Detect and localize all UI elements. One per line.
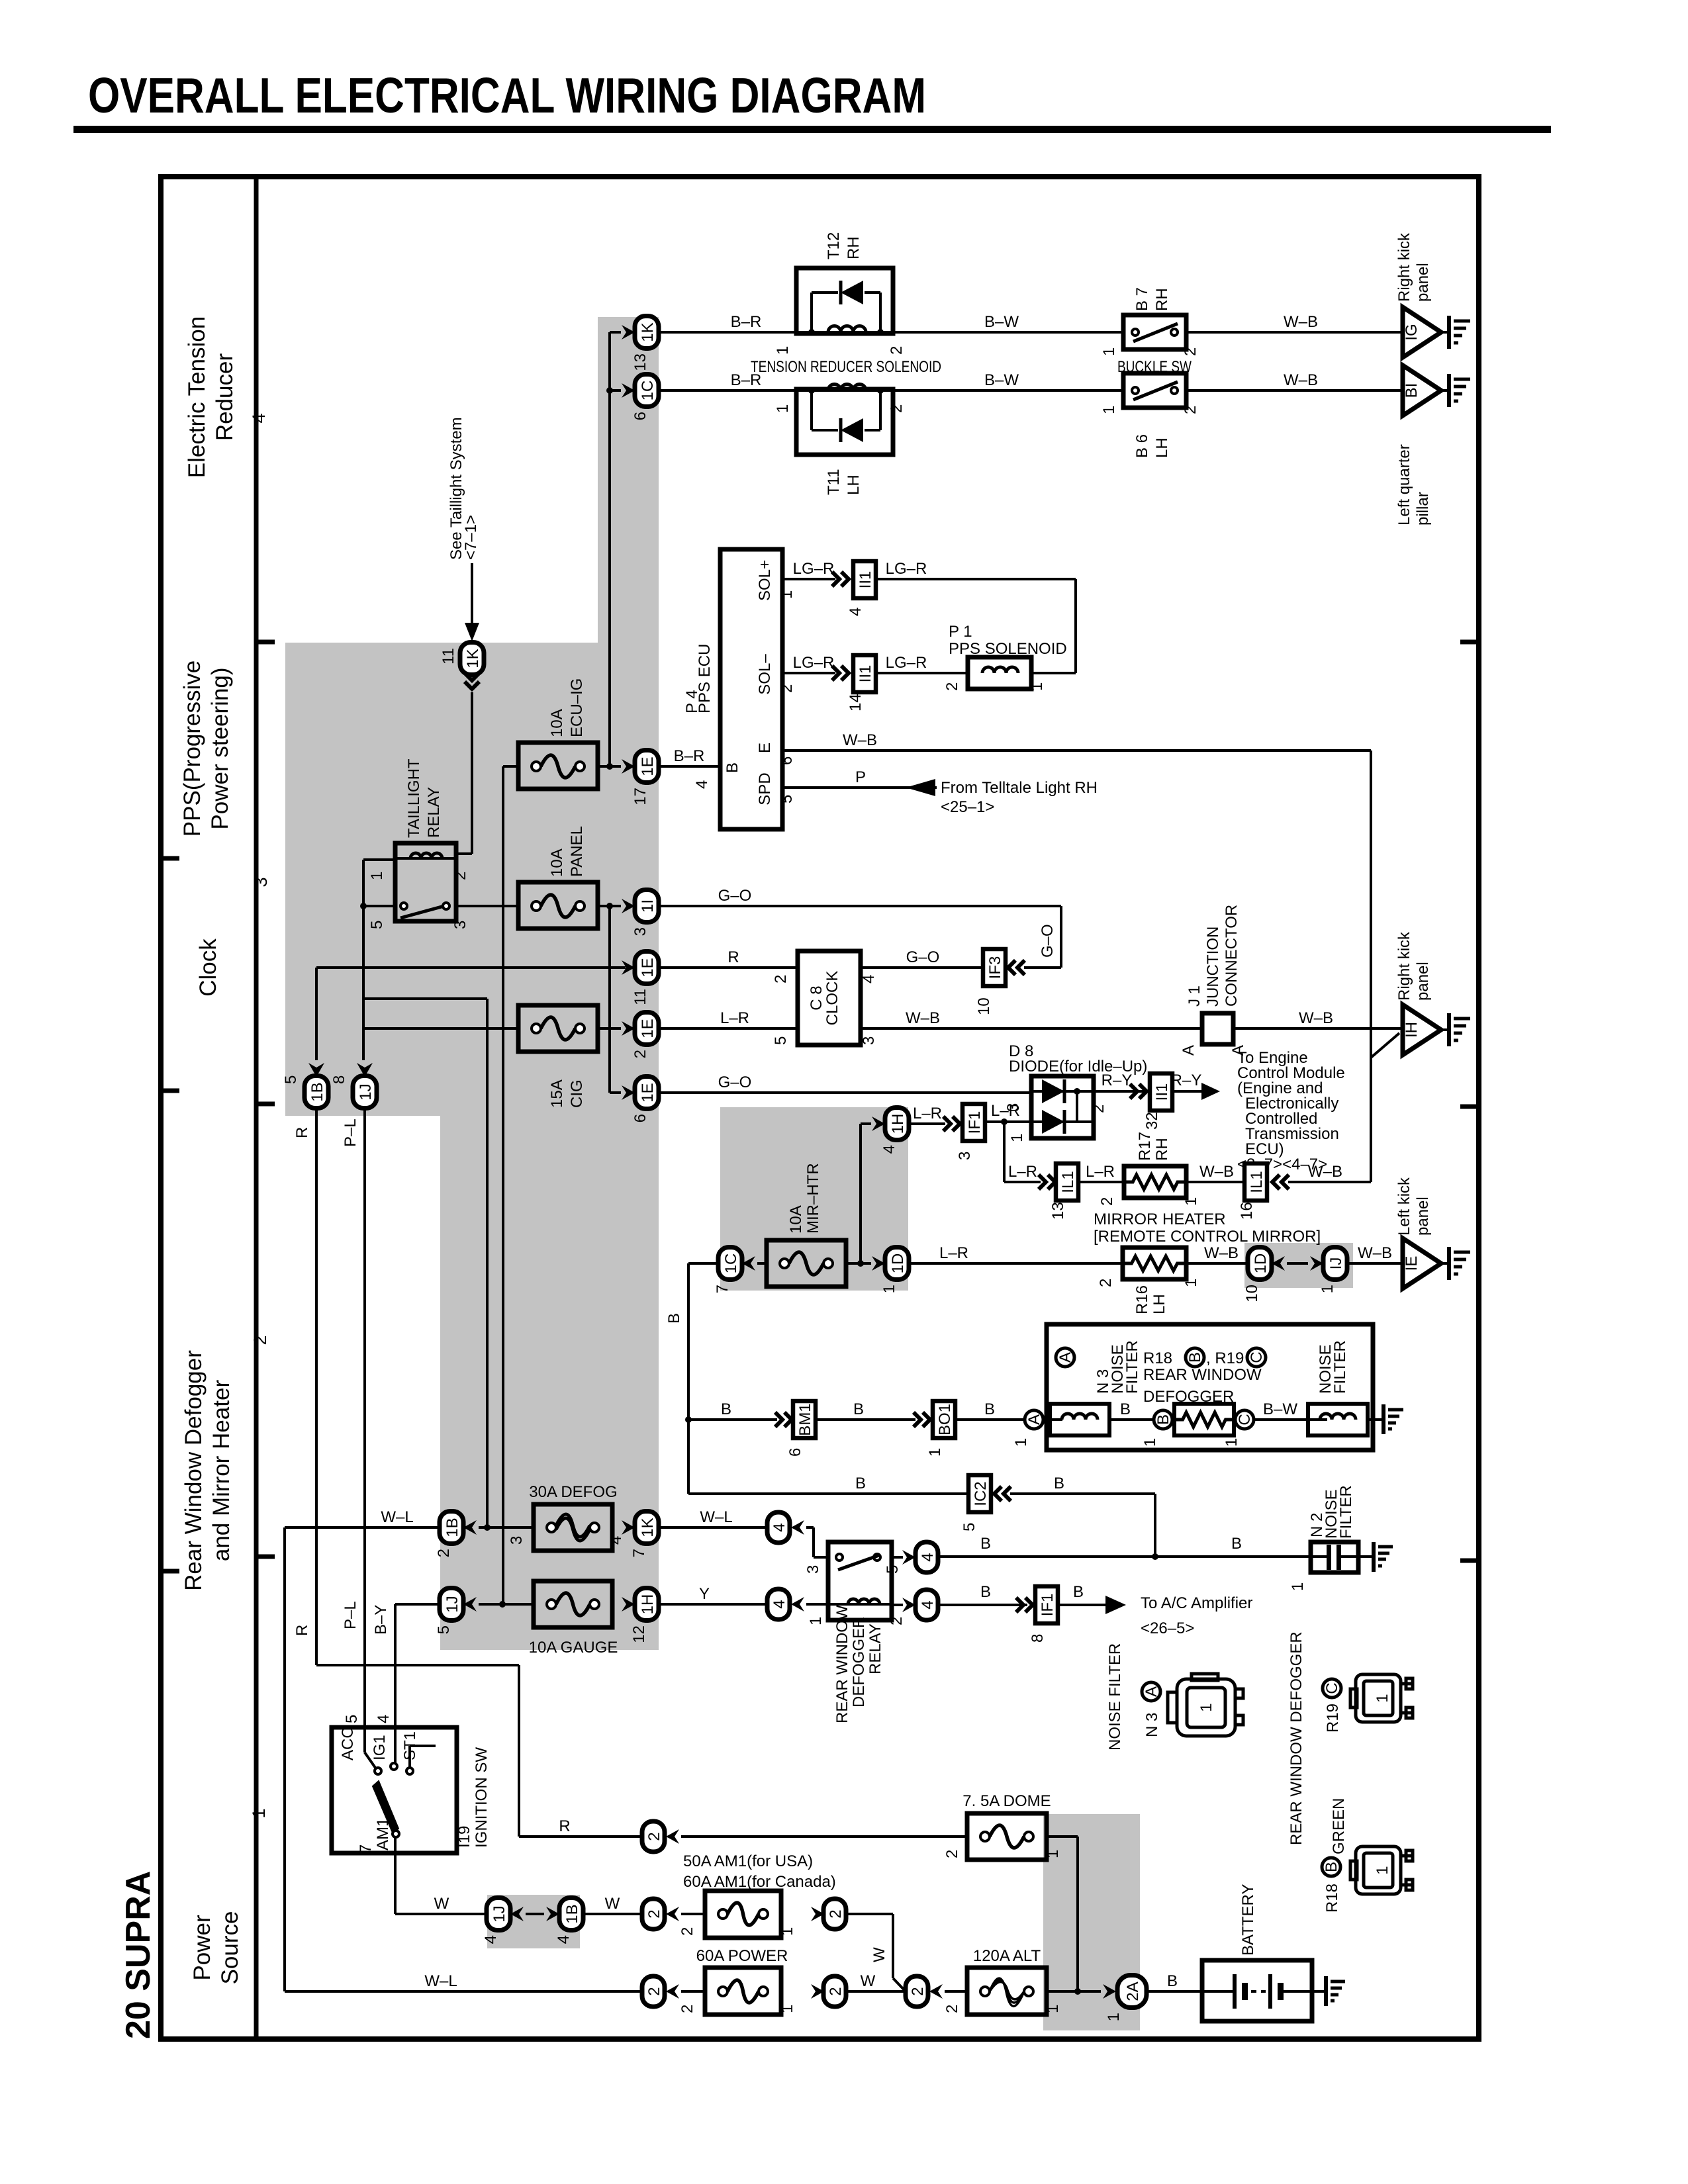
svg-text:W–B: W–B	[1308, 1163, 1342, 1181]
label REAR WINDOW DEFOGGER RELAY	[833, 1605, 884, 1723]
connector 11/1K	[440, 643, 484, 675]
svg-text:1: 1	[1223, 1438, 1241, 1447]
svg-text:B: B	[1054, 1475, 1064, 1492]
wire B to IC2	[688, 1475, 968, 1494]
terminal A circle inside box	[1056, 1348, 1074, 1367]
label B 6 LH	[1133, 434, 1171, 458]
svg-text:IF1: IF1	[1039, 1594, 1056, 1617]
svg-text:Power: Power	[189, 1915, 215, 1981]
svg-text:W: W	[605, 1895, 620, 1913]
svg-text:Y: Y	[699, 1585, 710, 1603]
diode D8 for Idle-Up	[1031, 1076, 1094, 1138]
svg-text:2: 2	[943, 2005, 961, 2013]
node N2 junction	[1152, 1553, 1158, 1560]
chevron into IC2	[994, 1486, 1011, 1501]
wire B-R row1	[659, 313, 796, 332]
svg-text:1B: 1B	[444, 1518, 461, 1537]
svg-text:15A: 15A	[548, 1079, 566, 1108]
wire stub to 1K	[610, 331, 621, 334]
label B before N2	[1231, 1535, 1242, 1553]
svg-text:W–B: W–B	[1284, 313, 1318, 331]
svg-text:4: 4	[482, 1935, 500, 1944]
fuse 30A DEFOG	[534, 1504, 612, 1551]
svg-text:I19: I19	[455, 1826, 473, 1848]
pin 3 DEFOG fuse	[508, 1536, 526, 1545]
svg-text:Right kick: Right kick	[1395, 931, 1413, 1001]
pin 3 D8	[1004, 1103, 1022, 1112]
svg-text:6: 6	[632, 412, 649, 420]
label R18 with circle B GREEN	[1322, 1798, 1348, 1913]
resistor R16 mirror heater LH	[1123, 1248, 1186, 1279]
svg-text:2: 2	[888, 1617, 906, 1625]
wire W-B clock pin3 to J1	[861, 1009, 1202, 1028]
svg-text:W: W	[870, 1947, 888, 1962]
svg-text:2: 2	[943, 682, 961, 691]
svg-text:3: 3	[451, 921, 469, 929]
svg-text:10A: 10A	[548, 848, 566, 877]
wire between pair	[1287, 1262, 1308, 1265]
pin 3 defog relay	[804, 1565, 822, 1574]
svg-text:LG–R: LG–R	[793, 560, 835, 578]
wire W to oval am1	[583, 1895, 642, 1914]
wire B-W row1	[893, 313, 1123, 332]
junction II1 pin14	[847, 655, 876, 711]
pin 1 D8	[1008, 1134, 1026, 1142]
svg-text:ACC: ACC	[339, 1727, 357, 1760]
ticks	[161, 642, 1479, 1571]
ground IG right kick panel	[1403, 307, 1470, 357]
label B-Y vertical	[372, 1605, 390, 1635]
svg-text:A: A	[1180, 1045, 1197, 1056]
junction II1 pin32	[1143, 1073, 1172, 1130]
wire W-B row1	[1186, 313, 1403, 332]
wire W-L to oval	[659, 1508, 767, 1527]
arrow into 4/1J	[510, 1907, 524, 1921]
label N 3 NOISE FILTER	[1094, 1340, 1141, 1394]
svg-text:5: 5	[343, 1715, 361, 1723]
wire P-L into ACC	[365, 1727, 375, 1768]
svg-text:T12: T12	[825, 232, 843, 259]
svg-text:W–B: W–B	[906, 1009, 940, 1027]
arrow into 2/1B	[463, 1520, 477, 1535]
pin 1 N2	[1289, 1582, 1307, 1591]
connector 5/1J	[435, 1588, 463, 1635]
connector 1/1D	[880, 1248, 909, 1294]
pin 4 clock	[860, 975, 878, 983]
pin 2 clock	[772, 975, 790, 983]
wire B-R to PPS ECU	[659, 747, 720, 766]
wire W-L from left	[285, 1508, 440, 1527]
svg-text:16: 16	[1238, 1202, 1256, 1220]
svg-text:R17: R17	[1136, 1132, 1154, 1161]
junction connector J1	[1202, 1013, 1233, 1044]
wire arrow to fuse DEFOG	[479, 1526, 534, 1529]
pin 2 DOME	[943, 1850, 961, 1858]
svg-text:C: C	[1323, 1682, 1341, 1694]
connector 2/1B	[435, 1512, 463, 1558]
svg-text:10A: 10A	[787, 1205, 805, 1234]
pin 1 terminal B	[1141, 1438, 1159, 1447]
svg-text:BI: BI	[1403, 383, 1421, 398]
connector 1/IJ	[1319, 1248, 1347, 1294]
svg-text:1H: 1H	[889, 1114, 907, 1134]
arrow to engine ECU	[1201, 1083, 1220, 1100]
svg-text:LH: LH	[1150, 1294, 1168, 1314]
svg-text:1E: 1E	[639, 1083, 657, 1102]
label REAR WINDOW DEFOGGER	[1143, 1366, 1262, 1406]
wire arrow to fuse	[757, 1262, 767, 1265]
svg-text:2: 2	[645, 1832, 663, 1841]
section label column line	[254, 177, 259, 2039]
svg-text:7: 7	[357, 1844, 375, 1853]
svg-text:IL1: IL1	[1248, 1171, 1266, 1193]
arrow to AC amplifier	[1105, 1596, 1126, 1614]
svg-text:RELAY: RELAY	[867, 1623, 884, 1674]
svg-text:<25–1>: <25–1>	[941, 798, 994, 816]
svg-text:7. 5A DOME: 7. 5A DOME	[962, 1792, 1051, 1810]
pin 2 R17	[1098, 1197, 1116, 1206]
label B 7 RH	[1133, 287, 1171, 311]
wire B BO1 to terminal A	[955, 1400, 1025, 1420]
svg-text:B–R: B–R	[674, 747, 705, 765]
node ALT dome junction	[1074, 1988, 1081, 1995]
connector 8/1J	[330, 1075, 377, 1109]
wire R-Y to arrow	[1171, 1071, 1202, 1091]
svg-text:1: 1	[1182, 1197, 1200, 1206]
label T11 LH	[825, 469, 863, 495]
junction BM1 pin6	[786, 1401, 816, 1457]
label To A/C Amplifier	[1141, 1594, 1252, 1637]
connector 3/1I	[632, 890, 659, 936]
svg-text:B: B	[984, 1400, 995, 1418]
svg-text:A: A	[1025, 1414, 1043, 1425]
wire B-W to noise filter 2	[1254, 1400, 1327, 1420]
wire B-Y into IG1	[394, 1727, 397, 1763]
pin 1 P1	[1028, 682, 1046, 691]
gray block DOME/ALT	[1043, 1814, 1140, 2030]
junction II1 pin4	[847, 561, 876, 616]
pin 2 SOL-	[778, 684, 796, 693]
svg-text:1: 1	[880, 1285, 898, 1293]
svg-text:IC2: IC2	[972, 1481, 990, 1506]
svg-text:1J: 1J	[444, 1596, 461, 1612]
arrow into connector 1K	[622, 325, 635, 340]
svg-text:C: C	[1236, 1414, 1254, 1425]
svg-text:5: 5	[282, 1075, 300, 1084]
fuse 10A PANEL	[518, 882, 598, 929]
svg-text:NOISE FILTER: NOISE FILTER	[1106, 1643, 1124, 1751]
svg-text:L–R: L–R	[913, 1105, 942, 1122]
svg-text:3: 3	[251, 877, 271, 887]
svg-text:1: 1	[1374, 1866, 1391, 1874]
arrow out relay top	[892, 1550, 915, 1565]
svg-text:IH: IH	[1403, 1022, 1421, 1038]
wire L-R to IF1	[909, 1105, 945, 1124]
ground BI left quarter pillar	[1403, 365, 1470, 416]
svg-text:1D: 1D	[889, 1253, 907, 1274]
wire SOL- LG-R	[782, 654, 835, 673]
svg-text:1: 1	[1374, 1694, 1391, 1702]
svg-text:B 6: B 6	[1133, 434, 1151, 458]
svg-text:2: 2	[451, 872, 469, 880]
svg-text:2: 2	[632, 1050, 649, 1058]
chevron SOL-	[832, 666, 849, 680]
svg-text:1: 1	[774, 404, 792, 413]
ECU P4 PPS ECU box	[720, 549, 782, 829]
wire B BM1 to BO1	[816, 1400, 915, 1420]
svg-text:60A POWER: 60A POWER	[696, 1947, 788, 1965]
wire R-Y out	[1094, 1071, 1150, 1091]
label From Telltale Light RH	[941, 779, 1098, 816]
section label Clock	[195, 938, 221, 997]
label J 1 JUNCTION CONNECTOR	[1186, 905, 1241, 1007]
svg-text:1: 1	[778, 1927, 796, 1936]
wire relay pin1 to bus	[363, 858, 395, 861]
svg-text:LG–R: LG–R	[886, 654, 927, 672]
svg-text:4: 4	[880, 1145, 898, 1154]
svg-text:IG1: IG1	[371, 1735, 389, 1760]
svg-text:W: W	[434, 1895, 449, 1913]
svg-text:LG–R: LG–R	[886, 560, 927, 578]
svg-text:8: 8	[330, 1075, 348, 1084]
label 50A 60A AM1	[683, 1852, 836, 1891]
arrow down into 5/1B	[308, 1063, 324, 1077]
svg-text:<7–1>: <7–1>	[462, 515, 480, 560]
svg-text:6: 6	[632, 1114, 649, 1122]
wire fuse to 2/1E	[598, 1027, 621, 1030]
svg-text:4: 4	[375, 1715, 393, 1723]
pin 3 clock	[860, 1036, 878, 1045]
svg-text:and Mirror Heater: and Mirror Heater	[209, 1380, 234, 1562]
svg-text:, R19: , R19	[1206, 1349, 1244, 1367]
connector 1/2A	[1105, 1976, 1147, 2022]
svg-text:3: 3	[804, 1565, 822, 1574]
label N 3 with circle A	[1142, 1682, 1161, 1737]
svg-text:B: B	[724, 762, 741, 773]
wire to relay pin3	[806, 1527, 828, 1557]
svg-text:R: R	[727, 948, 739, 966]
svg-text:Left kick: Left kick	[1395, 1177, 1413, 1236]
svg-text:R: R	[293, 1127, 311, 1138]
svg-text:2: 2	[1182, 347, 1199, 356]
label R19 with circle C	[1323, 1679, 1342, 1733]
wire diagonal to IH ground	[1371, 1033, 1399, 1058]
label MIRROR HEATER	[1094, 1210, 1321, 1246]
ground N2	[1372, 1542, 1393, 1572]
label 10A ECU-IG	[548, 678, 586, 737]
wire P-L down from 1J	[363, 1109, 366, 1727]
svg-text:B–R: B–R	[731, 313, 762, 331]
pin 2 T11	[888, 404, 906, 413]
svg-text:32: 32	[1143, 1112, 1161, 1130]
terminal A circle	[1025, 1410, 1043, 1429]
pin 2 ALT fuse	[943, 2005, 961, 2013]
svg-text:4: 4	[919, 1553, 937, 1561]
label 15A CIG	[548, 1079, 586, 1108]
chevron into IL1	[1039, 1175, 1055, 1189]
label D 8 DIODE	[1009, 1042, 1147, 1075]
wire fuse to 3/1I	[598, 905, 621, 907]
svg-text:P: P	[855, 768, 866, 786]
svg-text:L–R: L–R	[720, 1009, 749, 1027]
arrow into 1C	[742, 1256, 755, 1271]
svg-text:REAR WINDOW: REAR WINDOW	[833, 1605, 851, 1723]
wire L-R IL1 to R17	[1078, 1163, 1124, 1182]
svg-text:1C: 1C	[639, 381, 657, 401]
svg-text:1J: 1J	[357, 1083, 375, 1100]
svg-text:5: 5	[778, 795, 796, 803]
svg-text:2: 2	[772, 975, 790, 983]
svg-text:II1: II1	[1153, 1083, 1171, 1101]
pin 1 T12	[774, 346, 792, 355]
svg-text:1: 1	[1141, 1438, 1159, 1447]
svg-text:FILTER: FILTER	[1337, 1485, 1355, 1539]
label Left kick panel IE	[1395, 1177, 1432, 1236]
svg-text:1K: 1K	[639, 322, 657, 341]
svg-text:2: 2	[679, 1927, 696, 1936]
terminal SOL- label	[756, 654, 774, 695]
wire N2 to ground	[1358, 1555, 1372, 1558]
svg-text:[REMOTE CONTROL MIRROR]: [REMOTE CONTROL MIRROR]	[1094, 1228, 1321, 1246]
svg-text:10: 10	[1243, 1285, 1261, 1302]
svg-text:B: B	[853, 1400, 864, 1418]
svg-text:B: B	[980, 1583, 991, 1601]
node ECU-IG junction to bus	[606, 763, 613, 770]
arrow into 1/1D	[872, 1256, 885, 1271]
svg-text:1B: 1B	[563, 1904, 581, 1923]
arrow into 4/1B	[546, 1907, 559, 1921]
svg-text:B: B	[1073, 1583, 1084, 1601]
svg-text:L–R: L–R	[991, 1102, 1020, 1120]
connector oval 2 before ALT	[906, 1976, 928, 2007]
wire to DOME fuse	[681, 1835, 967, 1838]
section number 2	[250, 1335, 270, 1345]
svg-text:IF3: IF3	[986, 956, 1004, 979]
svg-text:II1: II1	[857, 665, 874, 683]
label G-O vertical	[1039, 924, 1056, 958]
terminal B circle	[1154, 1410, 1172, 1429]
svg-text:FILTER: FILTER	[1123, 1340, 1141, 1394]
node IF1 junction	[1001, 1118, 1008, 1125]
wire Y to oval	[659, 1585, 767, 1604]
chevron into IL1 right	[1272, 1175, 1289, 1189]
junction IF1 pin8	[1029, 1586, 1058, 1643]
svg-text:ECU–IG: ECU–IG	[568, 678, 586, 737]
wire B to battery	[1147, 1972, 1202, 1991]
wire W-B R17 to IL1	[1186, 1163, 1245, 1182]
svg-text:Right kick: Right kick	[1395, 232, 1413, 302]
svg-text:1: 1	[1044, 2005, 1062, 2013]
node DEFOG junction	[484, 1524, 491, 1531]
label P-L below 1J	[342, 1118, 359, 1147]
pin 2 R16	[1097, 1279, 1115, 1287]
chevron into IF3	[1008, 960, 1025, 975]
defogger assembly outer box	[1047, 1324, 1373, 1450]
label I19 IGNITION SW	[455, 1747, 491, 1848]
svg-text:SOL–: SOL–	[756, 654, 774, 695]
label R17 RH	[1136, 1132, 1171, 1161]
svg-text:2: 2	[645, 1987, 663, 1995]
connector icon N3	[1168, 1674, 1243, 1736]
wire L-R to IL1	[1004, 1163, 1041, 1182]
svg-text:1H: 1H	[639, 1594, 657, 1615]
label R below 1B	[293, 1127, 311, 1138]
svg-text:Source: Source	[217, 1911, 243, 1985]
wire W-B to IE	[1347, 1244, 1403, 1263]
svg-text:30A DEFOG: 30A DEFOG	[529, 1483, 617, 1501]
connector 4/1B power	[555, 1898, 583, 1944]
pin 3 taillight relay	[451, 921, 469, 929]
svg-text:CONNECTOR: CONNECTOR	[1223, 905, 1241, 1007]
wire G-O from 1I	[659, 887, 1061, 906]
wire R down from 1B	[315, 1109, 318, 1665]
wire into noise filter 1	[1043, 1418, 1062, 1421]
svg-text:Left quarter: Left quarter	[1395, 444, 1413, 525]
svg-text:Electric Tension: Electric Tension	[184, 316, 210, 478]
junction IL1 pin16	[1238, 1163, 1267, 1220]
svg-text:E: E	[756, 743, 774, 753]
svg-text:W–L: W–L	[381, 1508, 413, 1526]
arrow into 1/IJ	[1310, 1256, 1323, 1271]
svg-text:DEFOGGER: DEFOGGER	[850, 1617, 868, 1707]
label P 4 PPS ECU	[683, 644, 714, 713]
arrow into 6/1E	[622, 1085, 635, 1100]
ground IE left kick panel	[1403, 1238, 1470, 1289]
wire CIG feed	[363, 1027, 518, 1030]
wire B-Y corner to 1J	[395, 1604, 440, 1727]
wire oval to corner W	[846, 1914, 893, 1978]
label ST1	[401, 1731, 419, 1760]
svg-text:P–L: P–L	[342, 1118, 359, 1147]
svg-text:IF1: IF1	[966, 1111, 984, 1134]
arrow out relay bottom	[892, 1598, 915, 1612]
svg-text:IG: IG	[1403, 324, 1421, 340]
svg-text:W–B: W–B	[843, 731, 877, 749]
svg-text:1: 1	[1197, 1703, 1215, 1711]
wire corner down to solenoid	[1031, 579, 1076, 673]
chevron SOL+	[832, 572, 849, 586]
svg-text:B: B	[1167, 1972, 1178, 1990]
wire 1H feed corner	[861, 1124, 871, 1263]
wire R to oval	[519, 1817, 643, 1837]
wire R jog	[316, 1664, 519, 1666]
junction IF1 pin3	[956, 1104, 985, 1160]
svg-text:R18: R18	[1143, 1349, 1172, 1367]
svg-text:IGNITION SW: IGNITION SW	[473, 1747, 491, 1848]
svg-text:1I: 1I	[639, 899, 657, 913]
svg-text:17: 17	[632, 788, 649, 805]
svg-text:JUNCTION: JUNCTION	[1204, 927, 1222, 1007]
wire fuse to 1D	[846, 1262, 871, 1265]
svg-text:L–R: L–R	[1086, 1163, 1115, 1181]
pin 1 SOL+	[778, 590, 796, 599]
fuse 60A POWER	[705, 1968, 781, 2015]
pin 7 AM1	[357, 1844, 375, 1853]
wire diagonal to W row	[893, 1978, 906, 1991]
svg-text:R18: R18	[1323, 1884, 1341, 1913]
wire B to BM1	[688, 1400, 777, 1420]
connector 6/1E	[632, 1077, 659, 1123]
pin 2 B6	[1182, 406, 1199, 414]
svg-text:1: 1	[368, 872, 386, 880]
connector oval 2 dome	[642, 1821, 665, 1852]
wire from taillight system	[471, 563, 473, 626]
label 30A DEFOG	[529, 1483, 617, 1501]
arrow into 7/1K	[622, 1520, 635, 1535]
wire L-R to clock pin5	[659, 1009, 798, 1028]
wire W to oval3	[846, 1972, 906, 1991]
svg-text:1: 1	[1012, 1438, 1030, 1447]
